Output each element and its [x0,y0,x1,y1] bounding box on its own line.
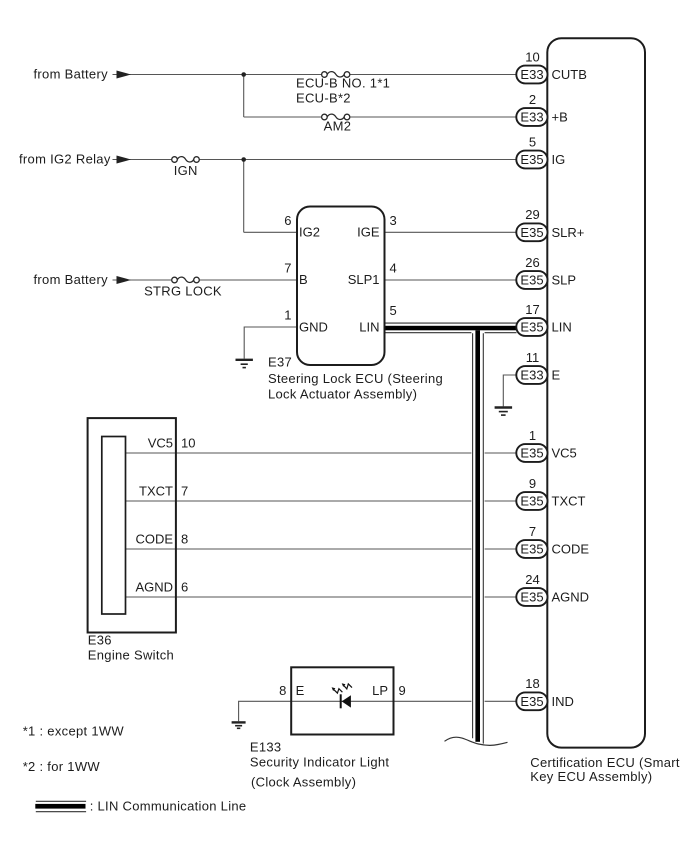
svg-text:E33: E33 [520,67,543,82]
svg-text:AGND: AGND [552,590,590,605]
wire connector E to ground [503,375,516,406]
svg-text:9: 9 [399,683,406,698]
svg-text:SLP: SLP [552,273,577,288]
wire engine switch AGND to connector AGND [126,596,517,598]
wire battery branch down to +B row [243,75,245,118]
svg-text:E35: E35 [520,542,543,557]
svg-text:CUTB: CUTB [552,67,587,82]
LIN line horizontal thick core [386,326,517,331]
svg-text:Security Indicator Light: Security Indicator Light [250,754,390,769]
svg-text:8: 8 [181,532,188,547]
engine switch inner contact bar [102,437,126,615]
svg-text:LP: LP [372,683,388,698]
svg-text:3: 3 [390,213,397,228]
LIN line break wave [445,737,508,745]
svg-text:E33: E33 [520,110,543,125]
security indicator light box E133 [291,667,393,734]
svg-text:ECU-B*2: ECU-B*2 [296,91,351,106]
ground steering lock GND [236,360,253,368]
connector E33 pin 10 CUTB [516,66,547,84]
svg-text:E35: E35 [520,152,543,167]
wire fuse ECU-B to connector CUTB [350,74,517,76]
wire indicator LP to connector IND [291,700,516,702]
arrow from IG2 Relay [117,156,132,164]
svg-text:from Battery: from Battery [34,67,109,82]
svg-text:Steering Lock ECU (Steering: Steering Lock ECU (Steering [268,371,443,386]
LIN line vertical thick core [475,330,480,742]
wire IG branch down to IG2 row [243,160,245,233]
svg-text:1: 1 [284,308,291,323]
svg-text:*1 : except 1WW: *1 : except 1WW [23,723,125,738]
fuse STRG LOCK [172,277,200,283]
svg-text:6: 6 [181,580,188,595]
svg-text:E133: E133 [250,740,282,755]
LIN line vertical outline left [472,333,474,738]
svg-text:8: 8 [279,683,286,698]
legend LIN line thick core [35,804,85,809]
wire indicator E pin to ground [239,701,292,721]
wire SLP1 pin to connector SLP [385,279,517,281]
wire engine switch CODE to connector CODE [126,548,517,550]
svg-text:(Clock Assembly): (Clock Assembly) [251,774,356,789]
svg-text:6: 6 [284,213,291,228]
svg-text:AM2: AM2 [324,119,352,134]
steering lock ECU box E37 [297,207,385,366]
svg-text:TXCT: TXCT [139,484,173,499]
junction IG branch [241,157,246,162]
LIN line horizontal outline top [386,322,517,324]
engine switch box E36 [88,418,176,632]
svg-text:E35: E35 [520,225,543,240]
wire battery to fuse STRG LOCK [113,279,172,281]
LED light arrow left [334,689,343,693]
svg-text:24: 24 [525,572,539,587]
svg-text:E35: E35 [520,320,543,335]
connector E35 pin 24 AGND [516,588,547,606]
svg-text:Key ECU Assembly): Key ECU Assembly) [530,769,652,784]
svg-text:+B: +B [552,110,568,125]
wire battery row to fuse ECU-B [113,74,322,76]
svg-text:CODE: CODE [135,532,173,547]
wire fuse IGN to connector IG [199,159,516,161]
svg-text:: LIN Communication Line: : LIN Communication Line [90,798,247,813]
svg-text:GND: GND [299,320,328,335]
svg-text:5: 5 [529,134,536,149]
LED light arrow right [344,684,352,689]
LED triangle [342,695,351,707]
legend LIN line outline top [36,800,86,802]
svg-text:*2 : for 1WW: *2 : for 1WW [23,759,101,774]
svg-text:VC5: VC5 [148,436,173,451]
svg-text:E35: E35 [520,273,543,288]
connector E35 pin 1 VC5 [516,444,547,462]
svg-text:E33: E33 [520,368,543,383]
wire fuse AM2 to connector +B [350,116,517,118]
svg-text:E: E [552,368,561,383]
wire engine switch TXCT to connector TXCT [126,500,517,502]
svg-text:11: 11 [526,350,540,365]
fuse AM2 [322,114,350,120]
junction battery branch [241,72,246,77]
connector E35 pin 29 SLR+ [516,223,547,241]
svg-text:Certification ECU (Smart: Certification ECU (Smart [530,755,680,770]
svg-text:7: 7 [529,524,536,539]
certification ECU box [547,38,645,747]
connector E35 pin 17 LIN [516,318,547,336]
svg-text:E35: E35 [520,494,543,509]
svg-text:26: 26 [525,255,539,270]
svg-text:LIN: LIN [359,320,379,335]
connector E35 pin 9 TXCT [516,492,547,510]
svg-text:CODE: CODE [552,542,590,557]
connector E33 pin 2 +B [516,108,547,126]
svg-text:B: B [299,272,308,287]
svg-text:18: 18 [525,676,539,691]
svg-text:E35: E35 [520,446,543,461]
svg-text:E37: E37 [268,355,292,370]
svg-text:10: 10 [525,49,539,64]
wire IG branch to steering lock IG2 pin [244,231,297,233]
wire IGE pin to connector SLR+ [385,231,517,233]
svg-text:IND: IND [552,694,574,709]
arrow from Battery lower [117,276,132,284]
LIN line vertical outline right [482,333,484,743]
svg-text:IGE: IGE [357,225,380,240]
svg-text:LIN: LIN [552,320,572,335]
svg-text:SLR+: SLR+ [552,225,585,240]
svg-text:E36: E36 [88,633,112,648]
svg-text:SLP1: SLP1 [348,272,380,287]
svg-text:AGND: AGND [135,580,173,595]
connector E33 pin 11 E [516,366,547,384]
svg-text:IGN: IGN [174,163,198,178]
svg-text:Lock Actuator Assembly): Lock Actuator Assembly) [268,386,417,401]
svg-text:IG2: IG2 [299,225,320,240]
svg-text:9: 9 [529,476,536,491]
svg-text:VC5: VC5 [552,446,577,461]
connector E35 pin 18 IND [516,692,547,710]
LED cathode bar [340,694,342,708]
wire GND pin to ground [244,327,297,359]
svg-text:E35: E35 [520,694,543,709]
legend LIN line outline bottom [36,811,86,813]
connector E35 pin 26 SLP [516,271,547,289]
ground connector E [495,408,512,416]
svg-text:7: 7 [181,484,188,499]
svg-text:TXCT: TXCT [552,494,586,509]
svg-text:2: 2 [529,92,536,107]
arrow from Battery top [117,71,132,79]
wire +B row to fuse AM2 [244,116,322,118]
svg-text:7: 7 [284,261,291,276]
svg-text:5: 5 [390,303,397,318]
svg-text:STRG LOCK: STRG LOCK [144,284,222,299]
svg-text:29: 29 [525,207,539,222]
svg-text:from IG2 Relay: from IG2 Relay [19,152,111,167]
connector E35 pin 7 CODE [516,540,547,558]
svg-text:Engine Switch: Engine Switch [88,648,174,663]
LIN line vertical casing [471,334,484,741]
wire IG2 relay to fuse IGN [113,159,172,161]
connector E35 pin 5 IG [516,151,547,169]
svg-text:ECU-B NO. 1*1: ECU-B NO. 1*1 [296,76,390,91]
fuse IGN [172,157,200,163]
svg-text:4: 4 [390,261,397,276]
svg-text:E: E [296,683,305,698]
wire engine switch VC5 to connector VC5 [126,452,517,454]
svg-text:1: 1 [529,428,536,443]
LIN line horizontal casing [386,322,517,334]
svg-text:IG: IG [552,152,566,167]
fuse ECU-B NO. 1 [322,72,350,78]
LIN line horizontal outline bottom [386,332,517,334]
svg-text:from Battery: from Battery [34,272,109,287]
svg-text:E35: E35 [520,590,543,605]
ground indicator E [232,722,246,728]
wire fuse STRG LOCK to steering lock B pin [199,279,297,281]
svg-text:10: 10 [181,436,195,451]
svg-text:17: 17 [525,302,539,317]
